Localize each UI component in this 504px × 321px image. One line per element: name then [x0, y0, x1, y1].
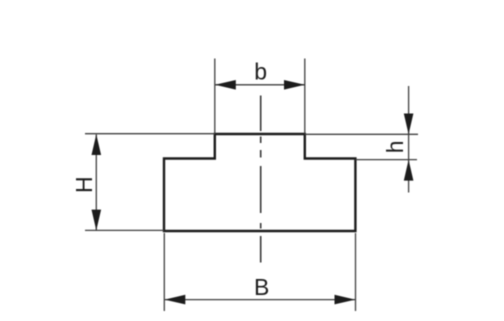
extension line B left (vertical x=164.3)	[163, 233, 165, 311]
arrowhead H top (pointing up)	[92, 134, 102, 155]
arrowhead B right (pointing right)	[335, 295, 356, 305]
dimension line B (horizontal y=299.6)	[165, 299, 356, 301]
dimension line b (horizontal y=84.8)	[215, 84, 305, 86]
svg-text:h: h	[382, 140, 408, 153]
svg-text:B: B	[254, 274, 269, 300]
T-profile outline	[164, 134, 355, 231]
extension line b left (vertical x=214.8)	[214, 59, 216, 134]
arrowhead H bottom (pointing down)	[92, 210, 102, 231]
arrowhead b left (pointing left)	[215, 80, 236, 90]
extension line B right (vertical x=355.5)	[355, 233, 357, 311]
extension line h upper-right (y=134.3)	[305, 133, 418, 135]
extension line h lower-right (y=159.6)	[355, 159, 417, 161]
svg-text:b: b	[254, 59, 267, 85]
dimension line H (vertical)	[95, 135, 97, 231]
svg-text:H: H	[71, 176, 97, 193]
arrowhead h top (pointing down, above span)	[404, 114, 414, 135]
arrowhead h bottom (pointing up, below span)	[404, 160, 414, 181]
arrowhead B left (pointing left)	[165, 295, 186, 305]
extension line b right (vertical x=304.8)	[304, 59, 306, 134]
extension line bottom-left (H bottom, y=230.4)	[85, 229, 164, 231]
centerline (vertical dash-dot axis)	[260, 96, 262, 263]
extension line top-left (H top, y=133.7)	[85, 133, 215, 135]
dimension line h (vertical x=408.6)	[408, 86, 410, 193]
arrowhead b right (pointing right)	[284, 80, 305, 90]
